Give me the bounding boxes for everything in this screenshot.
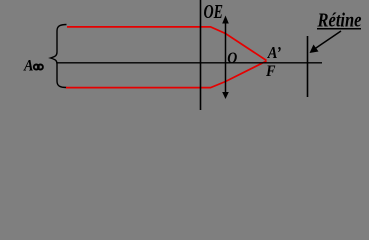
pointer arrowhead bbox=[310, 45, 319, 54]
pointer arrow to retina bbox=[313, 31, 341, 50]
brace (object at infinity) bbox=[51, 25, 67, 88]
lens bottom arrowhead bbox=[222, 92, 229, 99]
lens (double-headed arrow) bbox=[225, 21, 227, 94]
svg-text:A: A bbox=[23, 58, 34, 75]
top ray (red) bbox=[67, 27, 267, 61]
vertical line (eye entrance plane) bbox=[200, 0, 202, 110]
svg-text:A’: A’ bbox=[267, 43, 281, 62]
optical axis bbox=[57, 62, 322, 64]
svg-text:F: F bbox=[265, 63, 276, 80]
retina line bbox=[307, 36, 309, 97]
infinity symbol bbox=[34, 65, 39, 70]
svg-text:O: O bbox=[227, 50, 237, 67]
underline of Retine bbox=[317, 28, 361, 30]
lens top arrowhead bbox=[222, 16, 229, 24]
svg-text:OE: OE bbox=[204, 1, 224, 23]
bottom ray (red) bbox=[66, 61, 267, 88]
